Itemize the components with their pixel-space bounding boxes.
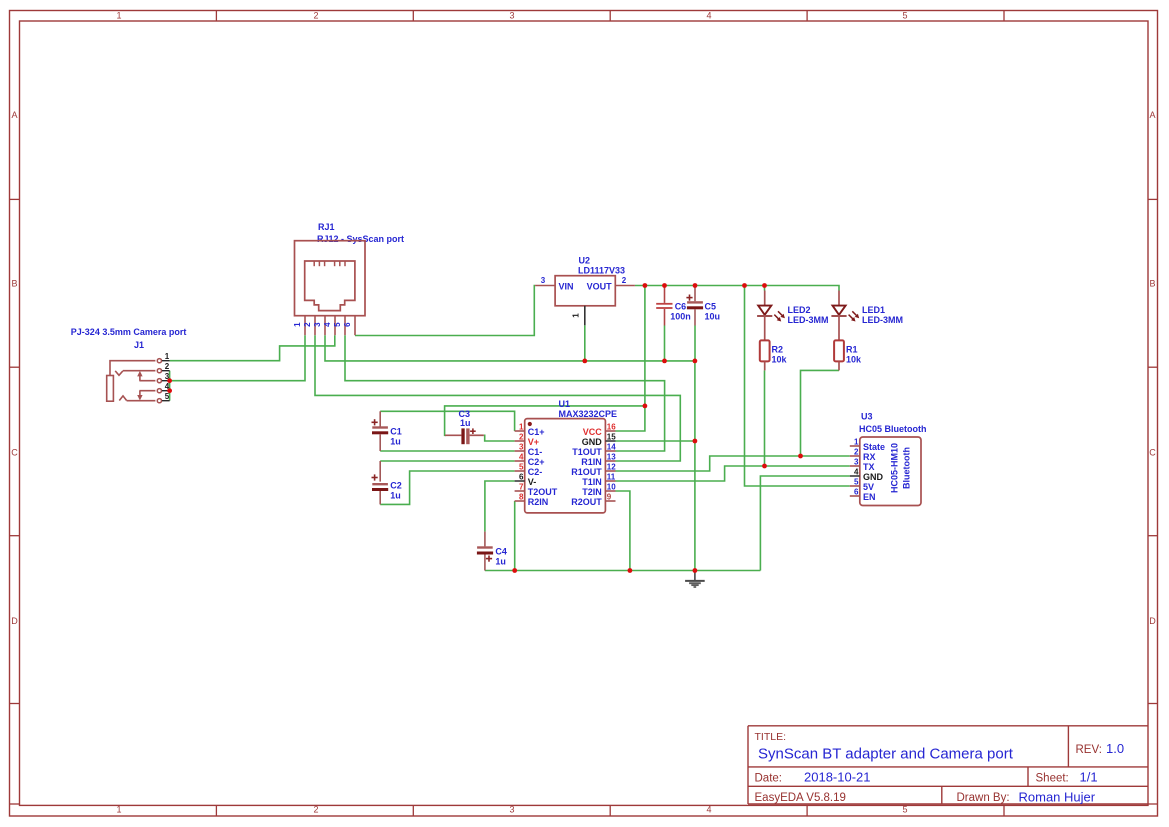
- svg-text:C2: C2: [390, 480, 402, 490]
- capacitor C3: [445, 409, 484, 444]
- svg-text:9: 9: [607, 492, 612, 501]
- svg-text:EN: EN: [863, 492, 876, 502]
- svg-text:3: 3: [509, 11, 514, 21]
- svg-text:1: 1: [854, 437, 859, 446]
- frame bottom-left ruler joint: [10, 803, 20, 805]
- op-amp U1 MAX3232CPE: [515, 399, 617, 513]
- frame left ruler ticks: [10, 199, 20, 703]
- svg-text:RX: RX: [863, 452, 876, 462]
- wire VCC to U3 5V: [745, 286, 850, 487]
- svg-text:1/1: 1/1: [1080, 770, 1098, 785]
- svg-text:R2OUT: R2OUT: [571, 497, 602, 507]
- svg-text:TX: TX: [863, 462, 875, 472]
- connector RJ1 RJ12: [293, 222, 404, 335]
- capacitor C5: [686, 286, 720, 326]
- svg-text:T1OUT: T1OUT: [572, 447, 602, 457]
- wire U1 pin10 to rail: [616, 491, 630, 571]
- svg-text:B: B: [1149, 279, 1155, 289]
- node GND-U1pin15: [693, 439, 698, 444]
- frame bottom-right ruler joint: [1148, 803, 1158, 805]
- svg-text:C2-: C2-: [528, 467, 543, 477]
- svg-text:PJ-324 3.5mm Camera port: PJ-324 3.5mm Camera port: [71, 327, 187, 337]
- U1 body: [525, 419, 606, 513]
- J1 pin stubs: [162, 361, 170, 401]
- svg-text:5: 5: [165, 392, 170, 401]
- wire C4 bottom GND rail: [485, 570, 761, 572]
- svg-text:Sheet:: Sheet:: [1036, 773, 1069, 785]
- U3 pin stubs: [850, 446, 860, 496]
- svg-text:SynScan BT adapter and Camera: SynScan BT adapter and Camera port: [758, 746, 1014, 763]
- svg-text:D: D: [11, 616, 18, 626]
- wire C1 top to U1 pin1: [380, 411, 514, 431]
- svg-text:V+: V+: [528, 437, 539, 447]
- svg-text:3: 3: [854, 457, 859, 466]
- wire U1 pin11 to U3 TX: [616, 466, 850, 481]
- svg-text:13: 13: [607, 452, 616, 461]
- svg-text:6: 6: [854, 487, 859, 496]
- U2 body: [555, 276, 615, 306]
- svg-text:U3: U3: [861, 412, 873, 422]
- wire RJ1 pin2 to U1 pin13: [315, 335, 680, 461]
- svg-text:100n: 100n: [670, 312, 691, 322]
- svg-text:C: C: [11, 448, 18, 458]
- svg-text:C1: C1: [390, 427, 402, 437]
- frame right ruler ticks: [1148, 199, 1158, 703]
- svg-text:4: 4: [519, 452, 524, 461]
- RJ1 jack opening: [305, 261, 355, 311]
- svg-text:5V: 5V: [863, 482, 874, 492]
- svg-text:3: 3: [519, 442, 524, 451]
- U1 pin labels left: [528, 427, 558, 507]
- svg-text:7: 7: [519, 482, 524, 491]
- svg-text:1: 1: [116, 11, 121, 21]
- wire C1 bottom to U1 pin3: [380, 450, 514, 452]
- ground: [685, 571, 705, 588]
- wire U1 pin12 to U3 RX: [616, 456, 850, 471]
- RJ1 contact teeth: [314, 261, 345, 266]
- svg-text:2: 2: [854, 447, 859, 456]
- svg-text:HC05 Bluetooth: HC05 Bluetooth: [859, 424, 927, 434]
- U1 pin1 marker dot: [528, 422, 532, 426]
- svg-text:12: 12: [607, 462, 616, 471]
- svg-text:1: 1: [293, 322, 302, 327]
- svg-text:LED2: LED2: [788, 305, 811, 315]
- svg-text:LED1: LED1: [862, 305, 885, 315]
- LED2: [757, 291, 828, 341]
- svg-text:R2IN: R2IN: [528, 497, 549, 507]
- wire VCC to LED2: [764, 286, 766, 291]
- module U3 HC05 Bluetooth: [850, 412, 927, 506]
- frame column numbers bottom: [116, 805, 907, 815]
- wire U2 GND to rail: [584, 325, 586, 361]
- capacitor C2: [372, 461, 402, 504]
- svg-text:RJ12 - SysScan port: RJ12 - SysScan port: [317, 234, 404, 244]
- wire U1 pin6 to C4: [485, 481, 515, 532]
- svg-text:R2: R2: [772, 345, 784, 355]
- node GNDrail-ground: [693, 568, 698, 573]
- node VCC-C6: [662, 283, 667, 288]
- svg-text:6: 6: [343, 322, 352, 327]
- U3 pin numbers: [854, 437, 859, 496]
- wire VCC to C3: [445, 406, 645, 435]
- U1 right pin stubs: [605, 431, 615, 501]
- svg-text:MAX3232CPE: MAX3232CPE: [559, 409, 618, 419]
- svg-text:8: 8: [519, 492, 524, 501]
- node VCC-U3 branch: [742, 283, 747, 288]
- svg-text:1u: 1u: [495, 557, 506, 567]
- RJ1 outer body: [295, 241, 366, 316]
- svg-text:Roman Hujer: Roman Hujer: [1019, 790, 1096, 805]
- svg-text:2: 2: [313, 805, 318, 815]
- connector J1 PJ-324: [71, 327, 187, 403]
- wire C2 top to U1 pin4: [380, 460, 514, 462]
- svg-text:A: A: [11, 110, 17, 120]
- svg-text:RJ1: RJ1: [318, 222, 335, 232]
- svg-text:Date:: Date:: [755, 773, 783, 785]
- wire RJ1 pin5 to U1 pin14: [345, 335, 665, 451]
- svg-text:D: D: [1149, 616, 1156, 626]
- title block: [748, 726, 1148, 804]
- U3 body: [860, 437, 921, 506]
- svg-text:10: 10: [607, 482, 616, 491]
- svg-text:State: State: [863, 442, 885, 452]
- svg-text:REV:: REV:: [1076, 744, 1102, 756]
- svg-text:Bluetooth: Bluetooth: [902, 447, 912, 489]
- wire RJ1 pin3 to GND rail: [325, 335, 695, 361]
- svg-text:VOUT: VOUT: [587, 282, 613, 292]
- svg-text:GND: GND: [863, 472, 884, 482]
- svg-text:1u: 1u: [460, 418, 471, 428]
- node J1 pin4: [167, 388, 172, 393]
- node GND-U2: [582, 359, 587, 364]
- U1 left pin stubs: [515, 431, 525, 501]
- capacitor C6: [656, 286, 691, 326]
- svg-text:C6: C6: [675, 301, 687, 311]
- U2 pin 2 VOUT stub: [615, 285, 635, 287]
- wire U1 pin15 GND: [616, 440, 695, 442]
- U1 pin labels right: [571, 427, 602, 507]
- wire RJ1 pin6 to U2 VIN: [355, 286, 535, 336]
- frame column numbers top: [116, 11, 907, 21]
- svg-text:5: 5: [519, 462, 524, 471]
- svg-text:3: 3: [313, 322, 322, 327]
- frame bottom ruler ticks: [216, 805, 1004, 816]
- node GND-C6: [662, 359, 667, 364]
- svg-text:16: 16: [607, 422, 616, 431]
- svg-text:U1: U1: [559, 399, 571, 409]
- svg-text:R1IN: R1IN: [581, 457, 602, 467]
- node VCC-U1 branch: [643, 283, 648, 288]
- svg-text:1u: 1u: [390, 490, 401, 500]
- svg-text:10u: 10u: [705, 312, 721, 322]
- wire GND vertical: [694, 361, 696, 571]
- wire C5 bottom: [694, 326, 696, 361]
- regulator U2 LD1117V33: [535, 256, 635, 326]
- svg-text:4: 4: [706, 805, 711, 815]
- svg-text:2: 2: [303, 322, 312, 327]
- svg-text:15: 15: [607, 432, 616, 441]
- svg-text:2: 2: [313, 11, 318, 21]
- capacitor C4: [477, 532, 507, 571]
- node VCC-C3: [643, 404, 648, 409]
- resistor R2: [760, 340, 788, 370]
- svg-text:GND: GND: [582, 437, 603, 447]
- LED1: [831, 291, 903, 341]
- svg-text:R1OUT: R1OUT: [571, 467, 602, 477]
- svg-text:VIN: VIN: [559, 282, 574, 292]
- svg-text:C2+: C2+: [528, 457, 545, 467]
- wire VCC to U1 pin16: [616, 406, 645, 431]
- svg-text:V-: V-: [528, 477, 537, 487]
- svg-text:C1+: C1+: [528, 427, 545, 437]
- wire U2 VOUT VCC rail: [635, 286, 839, 291]
- svg-text:LED-3MM: LED-3MM: [788, 315, 829, 325]
- capacitor C1: [372, 411, 402, 451]
- U1 pin numbers right: [607, 422, 616, 501]
- node VCC-C5: [693, 283, 698, 288]
- svg-text:J1: J1: [134, 340, 144, 350]
- svg-text:3: 3: [509, 805, 514, 815]
- J1 pin circles 1-5: [157, 359, 161, 403]
- wire R2 to TX net: [764, 370, 766, 466]
- wire C3 to U1 pin2: [484, 435, 515, 441]
- wire J1 pin1 to RJ1 pin4: [170, 335, 335, 361]
- wire U1 pin8 to rail: [514, 501, 516, 571]
- wire GND riser to U3 GND: [760, 476, 849, 571]
- svg-text:1u: 1u: [390, 437, 401, 447]
- svg-text:11: 11: [607, 472, 616, 481]
- svg-text:R1: R1: [846, 345, 858, 355]
- wire J1 sleeve bus: [169, 371, 171, 401]
- svg-text:C1-: C1-: [528, 447, 543, 457]
- node VCC-LED2: [762, 283, 767, 288]
- svg-text:T2IN: T2IN: [582, 487, 602, 497]
- svg-text:HC05-HM10: HC05-HM10: [890, 443, 900, 493]
- J1 pin numbers 1-5: [165, 352, 170, 401]
- resistor R1: [834, 340, 862, 370]
- frame row letters left: [11, 110, 18, 626]
- svg-text:4: 4: [854, 467, 859, 476]
- wire J1 pin3 to RJ1 pin1: [170, 335, 305, 381]
- svg-text:LED-3MM: LED-3MM: [862, 315, 903, 325]
- junction dots: [167, 283, 803, 573]
- node RX-R1: [798, 454, 803, 459]
- svg-text:Drawn By:: Drawn By:: [957, 792, 1010, 804]
- svg-text:U2: U2: [579, 256, 591, 266]
- svg-text:5: 5: [902, 805, 907, 815]
- svg-text:5: 5: [902, 11, 907, 21]
- frame top ruler ticks: [216, 11, 1004, 22]
- svg-text:3: 3: [541, 276, 546, 285]
- svg-text:1: 1: [519, 422, 524, 431]
- RJ1 pin stubs 1-6: [305, 316, 355, 336]
- U2 pin 1 GND stub: [584, 306, 586, 326]
- node J1 pin3: [167, 378, 172, 383]
- frame row letters right: [1149, 110, 1156, 626]
- svg-text:14: 14: [607, 442, 616, 451]
- wire C2 bottom to U1 pin5: [380, 471, 514, 504]
- svg-text:10k: 10k: [846, 355, 862, 365]
- node GND-C5: [693, 359, 698, 364]
- svg-text:2: 2: [622, 276, 627, 285]
- svg-text:T1IN: T1IN: [582, 477, 602, 487]
- wire VCC drop: [644, 286, 646, 406]
- svg-text:C: C: [1149, 448, 1156, 458]
- svg-text:C4: C4: [495, 547, 507, 557]
- U1 pin numbers left: [519, 422, 524, 501]
- svg-text:4: 4: [706, 11, 711, 21]
- svg-text:5: 5: [854, 477, 859, 486]
- svg-text:1: 1: [572, 313, 581, 318]
- svg-text:TITLE:: TITLE:: [755, 731, 787, 743]
- svg-text:2: 2: [519, 432, 524, 441]
- RJ1 pin numbers 1-6: [293, 322, 352, 327]
- svg-text:T2OUT: T2OUT: [528, 487, 558, 497]
- svg-text:2018-10-21: 2018-10-21: [804, 770, 871, 785]
- wire C6 bottom: [664, 326, 666, 361]
- svg-text:VCC: VCC: [583, 427, 603, 437]
- svg-text:6: 6: [519, 472, 524, 481]
- svg-text:5: 5: [333, 322, 342, 327]
- svg-text:10k: 10k: [772, 355, 788, 365]
- U2 pin 3 VIN stub: [535, 285, 555, 287]
- svg-text:B: B: [11, 279, 17, 289]
- svg-text:LD1117V33: LD1117V33: [578, 266, 625, 276]
- svg-text:4: 4: [323, 322, 332, 327]
- svg-text:EasyEDA V5.8.19: EasyEDA V5.8.19: [755, 792, 846, 804]
- J1 jack symbol body: [107, 361, 156, 402]
- U3 pin labels: [863, 442, 885, 502]
- svg-text:1.0: 1.0: [1106, 741, 1124, 756]
- node GNDrail-U1pin10: [628, 568, 633, 573]
- node GNDrail-U1pin8: [512, 568, 517, 573]
- svg-text:A: A: [1149, 110, 1155, 120]
- svg-text:1: 1: [116, 805, 121, 815]
- wire R1 to RX net: [801, 370, 840, 456]
- svg-text:C5: C5: [705, 301, 717, 311]
- svg-text:2: 2: [165, 362, 170, 371]
- svg-text:1: 1: [165, 352, 170, 361]
- node TX-R2: [762, 464, 767, 469]
